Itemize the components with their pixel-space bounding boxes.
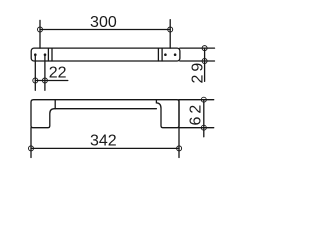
top view: right collar line xyxy=(157,48,159,61)
top view: right screw dot 1 xyxy=(164,53,167,56)
dim 22: dimension line xyxy=(35,80,68,82)
dim 62: bottom terminator circle xyxy=(201,125,206,130)
dim 62: bottom extension line xyxy=(179,127,214,129)
dim 22: left terminator circle xyxy=(33,78,38,83)
dim 29: bottom extension line xyxy=(180,60,215,62)
dim 29: top extension line xyxy=(180,47,215,49)
top view: left cap separator line xyxy=(47,48,49,61)
dim 29: top terminator circle xyxy=(202,46,207,51)
dim 300: dimension line xyxy=(40,29,170,31)
front view: handle left/main outline xyxy=(31,100,156,128)
svg-text:29: 29 xyxy=(190,60,207,84)
svg-text:342: 342 xyxy=(90,132,117,149)
top view: right screw dot 2 xyxy=(174,53,177,56)
dim 342: right terminator circle xyxy=(177,146,182,151)
dim 342: dimension line xyxy=(31,147,179,149)
dim 342: right extension line xyxy=(178,100,180,158)
top view: left screw dot 2 xyxy=(44,53,47,56)
dim 300: right extension line xyxy=(169,20,171,48)
top view: towel bar outline xyxy=(31,48,180,61)
dim 62: dimension line xyxy=(203,100,205,137)
dim 342: left terminator circle xyxy=(29,146,34,151)
dim 29: dimension line xyxy=(204,48,206,81)
dim 62: top extension line xyxy=(179,99,214,101)
top view: left screw dot 1 xyxy=(34,53,37,56)
svg-text:300: 300 xyxy=(90,14,117,31)
dim 300: right terminator circle xyxy=(168,27,173,32)
dim 22: right terminator circle xyxy=(42,78,47,83)
front view: right end outline xyxy=(156,100,179,128)
dim 342: left extension line xyxy=(30,128,32,158)
dim 22: right extension line xyxy=(44,55,46,91)
dim 22: left extension line xyxy=(34,55,36,91)
dim 29: bottom terminator circle xyxy=(202,59,207,64)
dim 300: left terminator circle xyxy=(38,27,43,32)
dim 62: top terminator circle xyxy=(201,97,206,102)
svg-text:62: 62 xyxy=(187,102,204,126)
front view: left seam line xyxy=(54,100,56,109)
top view: right cap separator line xyxy=(161,48,163,61)
svg-text:22: 22 xyxy=(49,65,67,82)
top view: left collar line xyxy=(51,48,53,61)
dim 300: left extension line xyxy=(39,20,41,48)
